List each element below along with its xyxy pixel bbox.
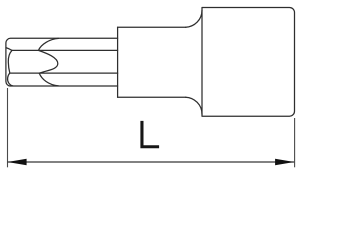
- shaft step face: [117, 27, 119, 97]
- bit groove line 3: [10, 72, 118, 74]
- flame arc lower: [39, 73, 58, 86]
- shaft top line: [118, 26, 186, 28]
- tip edge wavy left: [8, 50, 12, 73]
- fillet top: [186, 10, 203, 27]
- extension line right: [294, 118, 296, 167]
- arrowhead left: [7, 159, 26, 166]
- lobe crescent: [39, 50, 58, 73]
- extension line left: [7, 88, 9, 167]
- arrowhead right: [275, 159, 294, 166]
- bit outline: [6, 38, 118, 86]
- bit groove line 2: [12, 49, 118, 51]
- label L: [140, 121, 159, 148]
- dimension line: [8, 161, 295, 163]
- tip edge upper small curve: [6, 48, 12, 51]
- tip lower cap: [8, 73, 13, 86]
- socket body: [202, 8, 295, 117]
- fillet bottom: [186, 97, 203, 114]
- flame arc upper: [39, 38, 59, 50]
- shaft bottom line: [118, 96, 186, 98]
